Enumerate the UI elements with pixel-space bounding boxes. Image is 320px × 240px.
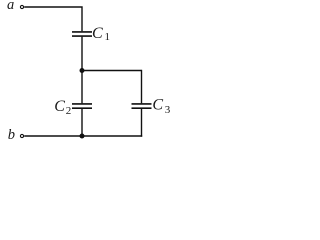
svg-text:C: C xyxy=(152,97,163,114)
svg-text:3: 3 xyxy=(165,104,171,116)
svg-text:a: a xyxy=(7,0,14,13)
bottom wire from terminal b to right branch xyxy=(24,135,142,137)
node junction dot (top) xyxy=(80,68,85,73)
wire from C1 bottom to node xyxy=(81,37,83,71)
wire node to right branch corner xyxy=(82,70,142,72)
svg-text:C: C xyxy=(54,98,65,115)
wire from terminal a to top of C1 xyxy=(24,7,82,31)
terminal b circle xyxy=(20,134,23,137)
capacitor C3 xyxy=(132,104,152,108)
wire C3 bottom to bottom wire xyxy=(141,109,143,137)
node junction dot (bottom) xyxy=(80,134,85,139)
svg-text:1: 1 xyxy=(105,31,111,43)
wire C2 bottom to bottom node xyxy=(81,109,83,136)
capacitor C1 xyxy=(72,32,92,36)
wire node down to C2 xyxy=(81,71,83,104)
wire right corner down to C3 xyxy=(141,70,143,104)
svg-text:b: b xyxy=(8,127,15,143)
svg-text:2: 2 xyxy=(66,105,72,117)
svg-text:C: C xyxy=(92,25,103,42)
terminal a circle xyxy=(20,5,23,8)
capacitor C2 xyxy=(72,104,92,108)
